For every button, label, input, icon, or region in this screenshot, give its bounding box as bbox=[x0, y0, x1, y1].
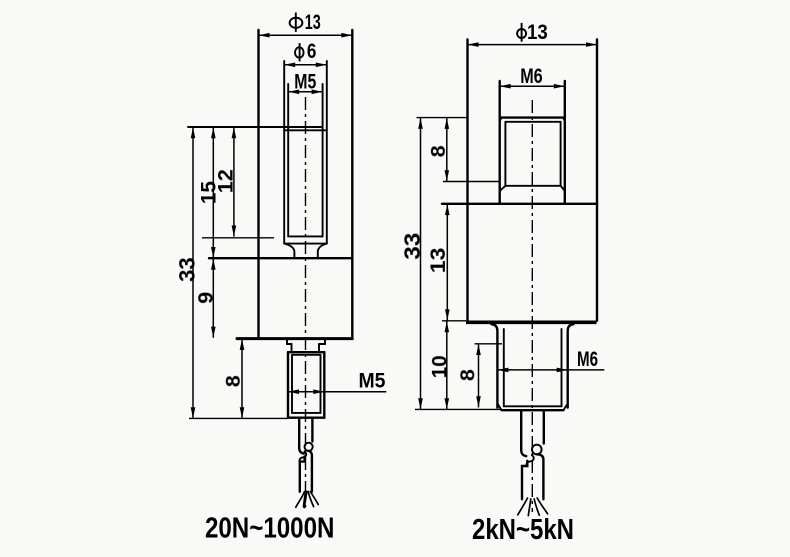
right sensor: phi13 dimension bbox=[468, 21, 598, 321]
left sensor: phi6 dimension bbox=[284, 40, 327, 244]
right sensor: dimension 10 bbox=[428, 321, 451, 410]
left sensor: bottom collar and neck bbox=[287, 339, 325, 352]
left sensor: bottom M5 stud bbox=[288, 352, 324, 418]
svg-text:8: 8 bbox=[223, 375, 245, 387]
svg-text:M5: M5 bbox=[359, 370, 386, 393]
svg-text:33: 33 bbox=[175, 257, 200, 282]
svg-text:13: 13 bbox=[305, 11, 321, 34]
left sensor: M5 top thread dimension bbox=[288, 71, 322, 237]
left sensor: main body bbox=[209, 258, 352, 338]
right sensor: lower dimension 8 bbox=[457, 344, 502, 408]
left sensor: M5 stud leader label bbox=[288, 370, 386, 394]
svg-text:8: 8 bbox=[457, 369, 479, 381]
left sensor: dimension 12 bbox=[215, 127, 238, 237]
right sensor: top stud thread bbox=[417, 118, 565, 191]
right sensor: bottom M6 stud bbox=[415, 324, 574, 410]
svg-text:33: 33 bbox=[400, 233, 425, 260]
left sensor: dimension 8 bbox=[189, 339, 288, 419]
left sensor: dimensions 15 and 9 bbox=[195, 127, 221, 338]
right sensor: center line bbox=[531, 100, 533, 512]
right sensor: M6 top thread dimension bbox=[500, 65, 565, 204]
right sensor: dimension 13 bbox=[427, 204, 450, 321]
right sensor: frayed wire ends bbox=[518, 498, 548, 516]
svg-text:M5: M5 bbox=[294, 71, 316, 94]
svg-text:12: 12 bbox=[215, 169, 238, 193]
right sensor: M6 stud leader label bbox=[497, 348, 604, 372]
left sensor: phi13 dimension bbox=[259, 11, 353, 339]
right sensor: dimension 33 bbox=[400, 118, 425, 410]
svg-text:M6: M6 bbox=[520, 65, 543, 88]
right sensor: main body bbox=[442, 204, 597, 322]
right sensor: cable with break symbol bbox=[521, 410, 544, 499]
svg-text:20N~1000N: 20N~1000N bbox=[205, 512, 335, 544]
svg-text:13: 13 bbox=[427, 248, 450, 274]
svg-text:13: 13 bbox=[527, 21, 548, 44]
svg-text:8: 8 bbox=[428, 145, 450, 157]
svg-text:9: 9 bbox=[195, 292, 218, 304]
right sensor: upper dimension 8 bbox=[428, 118, 500, 182]
left sensor: center line bbox=[305, 97, 307, 508]
left sensor: dimension 33 bbox=[175, 127, 200, 418]
left sensor: frayed wire ends bbox=[296, 492, 319, 508]
left sensor: cable with break symbol bbox=[299, 418, 313, 492]
svg-text:2kN~5kN: 2kN~5kN bbox=[472, 514, 574, 546]
left sensor: thread bottom and relief bbox=[202, 236, 327, 257]
svg-text:10: 10 bbox=[428, 355, 451, 378]
left sensor: threaded rod top edge bbox=[188, 127, 327, 130]
svg-text:6: 6 bbox=[307, 40, 317, 63]
svg-text:M6: M6 bbox=[577, 348, 598, 371]
